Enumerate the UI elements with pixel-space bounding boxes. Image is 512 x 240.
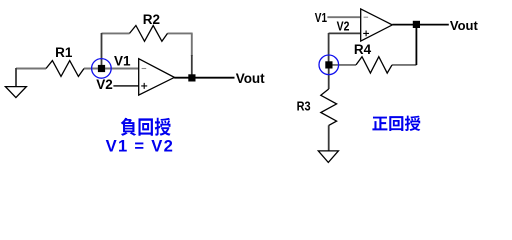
svg-text:V2: V2 — [337, 20, 350, 34]
svg-text:R2: R2 — [143, 12, 160, 27]
svg-text:Vout: Vout — [450, 18, 479, 33]
svg-text:R3: R3 — [297, 100, 311, 114]
svg-text:Vout: Vout — [236, 71, 265, 86]
svg-text:V1: V1 — [114, 54, 131, 69]
svg-text:V2: V2 — [96, 77, 113, 92]
svg-text:V1: V1 — [315, 11, 327, 25]
svg-text:V1 = V2: V1 = V2 — [106, 136, 175, 155]
svg-text:R4: R4 — [354, 42, 372, 57]
svg-text:R1: R1 — [55, 45, 73, 60]
